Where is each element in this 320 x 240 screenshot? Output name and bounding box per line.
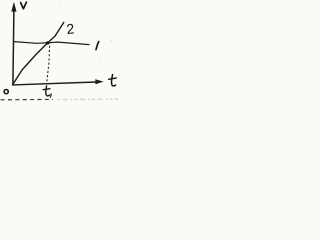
label 1 — [96, 42, 99, 50]
label o (origin) — [4, 90, 8, 94]
bottom faint marks (right part) — [57, 98, 118, 101]
line 2 (diagonal) — [13, 22, 64, 84]
bottom dashed rule (dark left part) — [1, 98, 54, 100]
v-axis shaft — [13, 11, 14, 86]
dashed vertical line at t1 — [47, 46, 50, 82]
line 1 (horizontal) — [14, 42, 89, 45]
svg-text:2: 2 — [66, 20, 75, 37]
background — [0, 0, 118, 103]
t-axis arrowhead — [95, 79, 103, 84]
crossing blob (intersection of lines 1 and 2) — [46, 41, 50, 44]
scan noise specks — [31, 3, 112, 65]
v-axis arrowhead — [11, 2, 16, 12]
label t1 (below axis) — [43, 86, 51, 97]
label t (axis) — [109, 75, 117, 86]
t-axis shaft — [13, 82, 97, 85]
label v — [21, 2, 27, 9]
